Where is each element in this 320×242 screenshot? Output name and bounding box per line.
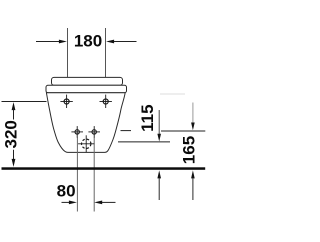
dimension 180 right arrowhead	[106, 40, 114, 44]
dimension 180 right leader	[114, 41, 137, 43]
dimension 180 left arrowhead	[59, 40, 67, 44]
dimension 165 down arrowhead	[191, 123, 195, 131]
svg-text:80: 80	[57, 181, 76, 200]
dimension 320 lower arrowhead	[12, 159, 16, 167]
dimension 115 below-floor arrowhead	[157, 170, 161, 178]
upper fixing hole cross right	[100, 95, 112, 108]
lower fixing hole cross left	[71, 126, 83, 138]
dimension 80 left arrowhead	[69, 201, 77, 205]
dimension 180 left leader	[36, 41, 60, 43]
lower fixing hole cross right	[88, 126, 100, 138]
dimension 80 right leader	[102, 201, 116, 203]
fixture ceramic body outline	[46, 93, 125, 153]
dimension 320 upper arrowhead	[12, 102, 16, 110]
dimension 180 left extension line	[67, 28, 69, 78]
dimension 80 right arrowhead	[94, 201, 102, 205]
dimension 165 reference tick outer segment	[161, 130, 205, 132]
dimension 320 top tick	[2, 101, 47, 103]
dimension 165 faint stub	[160, 93, 185, 95]
svg-text:115: 115	[138, 104, 157, 131]
dimension 115 reference tick	[118, 141, 170, 143]
floor line	[2, 167, 206, 170]
waste outlet cross	[78, 135, 94, 152]
upper fixing hole cross left	[60, 95, 72, 108]
dimension 165 reference tick inner segment	[121, 130, 132, 132]
svg-text:320: 320	[2, 120, 21, 148]
fixture tank rim band	[46, 85, 127, 92]
dimension 165 below-floor leader	[192, 178, 194, 200]
drain template line left	[76, 138, 78, 212]
dimension 165 upper leader	[192, 103, 194, 124]
dimension 115 down arrowhead	[157, 134, 161, 142]
dimension 320 line upper segment	[13, 109, 15, 120]
dimension 115 below-floor leader	[158, 178, 160, 200]
svg-text:165: 165	[180, 136, 199, 164]
drain template line right	[93, 138, 95, 212]
dimension 180 right extension line	[105, 28, 107, 77]
dimension 165 below-floor arrowhead	[191, 170, 195, 178]
dimension 320 line lower segment	[13, 150, 15, 160]
dimension 80 left leader	[62, 201, 70, 203]
dimension 115 leader line	[158, 110, 160, 135]
svg-text:180: 180	[74, 31, 102, 50]
fixture cistern lid	[52, 77, 123, 85]
